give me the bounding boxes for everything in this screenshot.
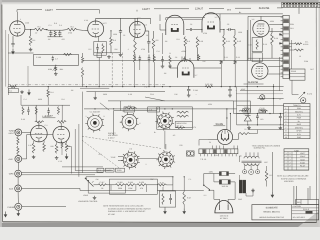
resistor R25	[294, 49, 303, 51]
svg-text:R-2: R-2	[32, 39, 35, 42]
svg-text:SCALE: SCALE	[303, 208, 310, 211]
svg-text:.01: .01	[146, 34, 149, 37]
tube V6 6L6G output 1	[253, 20, 269, 36]
svg-text:C-141: C-141	[193, 89, 198, 92]
phone jack circle	[301, 98, 306, 103]
control network box	[34, 55, 79, 66]
resistor R51 in box	[162, 194, 164, 205]
svg-text:1: 1	[20, 18, 21, 21]
transformer secondary winding	[244, 163, 259, 165]
svg-text:R-31: R-31	[42, 115, 46, 118]
svg-text:S-2: S-2	[204, 194, 207, 197]
selector switch	[85, 178, 94, 187]
tube V8 6L6G output 2	[252, 63, 268, 79]
potentiometer hum balance	[53, 65, 57, 72]
wire strip to box a	[288, 70, 291, 72]
svg-text:A NATION: A NATION	[293, 205, 302, 208]
resistor R2 divider	[29, 30, 32, 46]
wire drop from parts table	[298, 8, 300, 14]
capacitor C2	[58, 30, 61, 37]
capacitor box C10	[252, 53, 262, 62]
transformer core	[242, 161, 262, 163]
svg-text:NOTE: ALL CAPACITOR VALUES ARE: NOTE: ALL CAPACITOR VALUES ARE	[277, 175, 309, 178]
junction y98.5	[262, 98, 274, 99]
wire bundle bend	[66, 146, 72, 148]
fuse F1	[219, 172, 228, 176]
svg-text:.005: .005	[61, 38, 65, 41]
arrowheads into strip	[280, 34, 283, 45]
label J1	[9, 130, 16, 136]
svg-text:9: 9	[285, 133, 286, 136]
svg-text:R-1: R-1	[245, 128, 248, 131]
resistor R46 chain	[98, 184, 107, 186]
svg-text:6: 6	[285, 123, 286, 126]
border frame right	[315, 6, 317, 223]
small plate box	[175, 122, 192, 128]
wire V6 to strip b	[269, 31, 283, 33]
pilot lamp P3	[256, 170, 260, 174]
chassis box partial	[114, 111, 157, 136]
svg-text:R-10: R-10	[199, 40, 203, 43]
wire transformer left	[239, 156, 241, 180]
svg-text:1: 1	[285, 107, 286, 110]
table TUBE (tube complement)	[284, 149, 309, 170]
label AC plug	[220, 214, 229, 219]
resistor R43 in S4 box	[177, 111, 189, 113]
wire transformer bottom	[246, 189, 253, 196]
pilot lamp	[260, 95, 265, 100]
socket S3 (bottom view)	[121, 151, 140, 170]
section bracket second	[137, 8, 283, 12]
wire plug risers	[209, 182, 235, 205]
resistor box R151	[243, 109, 251, 112]
ground transformer	[251, 189, 255, 192]
resistor R12	[234, 30, 237, 61]
wire into box	[8, 52, 34, 54]
pot wiper arrow	[299, 92, 306, 99]
wire x272.4 vertical	[271, 152, 273, 192]
capacitor C15	[161, 56, 164, 65]
wires V11 anode drops	[227, 109, 231, 131]
wire y105 right	[237, 104, 284, 106]
capacitor C3 cathode	[11, 36, 14, 47]
wire J1 to V9 grid	[22, 131, 31, 133]
wire V9 plate up	[38, 123, 40, 125]
svg-text:16: 16	[299, 55, 301, 58]
tube V1 12AT7 section A	[10, 21, 25, 36]
svg-text:1: 1	[86, 115, 87, 118]
wire V2 cathode to box	[98, 37, 100, 42]
resistor R3 (network)	[54, 31, 56, 37]
svg-text:6L6G: 6L6G	[300, 158, 305, 161]
tube V10 12AT7 preamp B	[53, 126, 70, 143]
svg-text:LOUD: LOUD	[83, 194, 89, 197]
tube V3 12AT7	[129, 22, 145, 38]
AC plug	[215, 200, 233, 213]
bias rail low	[248, 129, 284, 131]
svg-text:C-2: C-2	[45, 124, 48, 127]
wire node A	[45, 29, 49, 31]
svg-text:LOUDNESS CONTROL: LOUDNESS CONTROL	[78, 200, 98, 203]
transformer core lamination bar 2	[243, 180, 246, 193]
wire bus drop right	[150, 18, 152, 24]
ground V10 cathode	[55, 156, 59, 159]
wires strip to taps	[289, 40, 294, 69]
diagonal wire from tone	[145, 97, 165, 101]
wire S5 top	[165, 144, 167, 149]
svg-text:SHOWN IN POS. 1. VOLTAGES AT S: SHOWN IN POS. 1. VOLTAGES AT SOCKET.	[108, 210, 146, 213]
terminal strip (right vertical)	[281, 15, 290, 78]
speaker terminal box	[290, 69, 305, 80]
svg-text:C-1: C-1	[98, 169, 101, 172]
svg-text:R-120: R-120	[139, 181, 144, 184]
svg-text:TONE: TONE	[111, 156, 117, 159]
wire RC network bottom rail	[48, 36, 63, 38]
svg-text:V-2: V-2	[128, 105, 131, 108]
electrolytic C17	[187, 87, 191, 97]
svg-text:INPUT: INPUT	[9, 132, 16, 135]
resistor R39	[35, 107, 37, 115]
svg-text:R-4: R-4	[50, 91, 53, 94]
svg-text:R-172: R-172	[307, 93, 312, 96]
wire y98.5	[257, 98, 283, 100]
ground x29	[28, 90, 31, 95]
wire taps down	[111, 185, 147, 193]
wire V4 grid left	[160, 15, 166, 31]
svg-text:12AT7: 12AT7	[142, 8, 150, 11]
wire network to R4	[63, 29, 67, 32]
svg-text:C-8: C-8	[157, 50, 160, 53]
wire drop x172.9	[172, 177, 174, 185]
svg-text:.05: .05	[101, 187, 104, 190]
resistor R27	[238, 133, 250, 135]
svg-text:12AT7: 12AT7	[45, 9, 53, 12]
label 12AT7 preamp	[42, 115, 55, 118]
resistor R10	[196, 37, 199, 61]
rectifier diode D1	[244, 116, 251, 121]
socket S4 (bottom view)	[155, 112, 174, 131]
bus y58.2	[248, 57, 283, 59]
svg-text:GND: GND	[238, 198, 243, 201]
capacitor C22	[47, 108, 50, 116]
resistor R48 chain	[125, 184, 136, 186]
resistor R11	[223, 30, 226, 61]
svg-text:SPKR: SPKR	[291, 70, 297, 73]
svg-text:9: 9	[104, 115, 105, 118]
svg-text:C-100: C-100	[36, 56, 41, 59]
svg-text:.02: .02	[190, 23, 193, 26]
capacitor C14	[148, 55, 151, 87]
capacitor C23 in box	[169, 194, 172, 204]
svg-text:RED/YEL: RED/YEL	[295, 110, 303, 113]
resistor R47 chain	[115, 184, 126, 186]
tube V11 5U4G	[217, 129, 232, 144]
svg-text:SUNBEATE: SUNBEATE	[266, 207, 279, 210]
wire y170.5	[75, 170, 113, 172]
svg-text:5U4G: 5U4G	[216, 122, 223, 126]
jack J4 input	[15, 185, 22, 192]
fuse holder box	[186, 151, 194, 156]
svg-text:R-11: R-11	[226, 40, 230, 43]
resistor R9	[184, 37, 187, 61]
resistor R7 long	[134, 18, 137, 60]
ground selector	[93, 196, 97, 199]
capacitor C21	[27, 107, 30, 115]
svg-text:DURING POL: DURING POL	[254, 147, 265, 150]
socket S2 (bottom view)	[120, 112, 139, 131]
svg-text:B+: B+	[298, 120, 300, 123]
capacitor C13	[139, 56, 142, 71]
svg-text:R-8: R-8	[62, 98, 65, 101]
wire ground stub	[94, 92, 96, 97]
svg-text:.02: .02	[35, 32, 38, 35]
svg-text:MODEL 0810-01: MODEL 0810-01	[264, 210, 281, 213]
wire J3 b	[22, 174, 96, 176]
ground feedback box	[164, 208, 167, 213]
junction R6 top	[110, 30, 111, 31]
ground stage2 a	[107, 55, 111, 58]
wire fuse row top	[204, 173, 235, 175]
svg-text:V-3: V-3	[144, 24, 147, 27]
parts list table (top right)	[282, 2, 320, 7]
svg-text:12AT7: 12AT7	[45, 115, 53, 118]
svg-text:C-9: C-9	[149, 109, 152, 112]
wire V1 plate to bracket	[16, 12, 18, 21]
feedback box V2 cathode	[94, 42, 107, 56]
ground arrow x272	[271, 192, 274, 197]
junction R52	[184, 176, 185, 177]
wire y90.7	[240, 90, 283, 92]
svg-text:WIRING DIAGRAM FOR THE: WIRING DIAGRAM FOR THE	[259, 216, 284, 219]
resistor R20 above V7	[198, 55, 200, 61]
wire J3 a	[22, 172, 104, 174]
svg-text:.02: .02	[175, 56, 178, 59]
svg-text:R-4: R-4	[70, 25, 73, 28]
svg-text:R-13: R-13	[263, 43, 267, 46]
svg-text:AUX: AUX	[9, 158, 14, 161]
svg-text:2: 2	[146, 163, 147, 166]
junction R2 top	[30, 29, 31, 30]
svg-text:V-6: V-6	[252, 18, 255, 21]
wire y190.4	[94, 189, 136, 191]
title block	[252, 200, 319, 220]
svg-text:3: 3	[123, 110, 124, 113]
svg-text:BAL: BAL	[60, 68, 64, 71]
svg-text:1: 1	[285, 152, 286, 155]
wire V8 to strip a	[268, 66, 283, 68]
wire V7 right	[194, 67, 221, 69]
wire S4 bottom	[164, 131, 166, 149]
resistor R4 coupling	[67, 28, 77, 31]
svg-text:4: 4	[285, 117, 286, 120]
terminal strip (bottom horizontal)	[199, 149, 238, 156]
loudness enclosure	[110, 179, 158, 194]
border frame bottom	[3, 221, 317, 224]
svg-text:C-9: C-9	[249, 44, 252, 47]
svg-text:V-10: V-10	[58, 160, 62, 163]
AC plug prongs	[220, 205, 229, 210]
svg-text:R-30: R-30	[21, 118, 25, 121]
resistor R30 above V10	[57, 121, 66, 124]
component box mid 1	[124, 107, 135, 112]
svg-text:2: 2	[289, 164, 290, 167]
wire switch feed	[157, 174, 204, 191]
section bracket 12AT7 left	[17, 10, 100, 14]
resistor R5 in box	[102, 44, 104, 54]
svg-text:A 250: A 250	[244, 113, 249, 116]
shield line vertical 2	[122, 53, 124, 87]
svg-text:SPKR: SPKR	[296, 130, 302, 133]
resistor R1 plate load	[34, 28, 45, 31]
wire fuse row bottom	[214, 181, 235, 183]
resistor R21	[220, 61, 223, 87]
resistor R22	[234, 61, 237, 87]
svg-text:R-9: R-9	[187, 40, 190, 43]
shield line horizontal	[8, 84, 165, 86]
wire x279.3 vertical	[278, 57, 280, 91]
svg-text:5U4G: 5U4G	[300, 161, 305, 164]
wire y193.1	[88, 192, 125, 194]
svg-text:V-3: V-3	[138, 17, 141, 20]
electrolytic C18	[228, 87, 232, 97]
svg-text:6: 6	[140, 122, 141, 125]
wire stage2 bottom	[94, 52, 121, 54]
svg-text:6L6G/5B: 6L6G/5B	[248, 81, 259, 84]
ground C15	[161, 65, 165, 68]
scan edge top fade	[0, 2, 320, 4]
T-150 transformer box	[234, 101, 251, 113]
wire x62 up	[61, 105, 63, 122]
wire box bottom stubs	[165, 205, 184, 209]
border frame left	[1, 5, 4, 222]
svg-text:10: 10	[285, 136, 287, 139]
capacitor C7 coupling	[186, 28, 202, 31]
wire selector stub	[85, 177, 87, 179]
svg-text:7: 7	[285, 126, 286, 129]
wire V5 plate to bus	[219, 14, 221, 20]
label 6L6G/5B lower	[244, 81, 264, 84]
svg-text:C-1: C-1	[49, 24, 52, 27]
tube V5 12AU7 section B	[202, 13, 220, 33]
wire V8 to strip b	[268, 73, 283, 75]
resistor R52	[183, 177, 186, 205]
bus y60.5	[83, 60, 283, 62]
dashed leader line 1	[82, 136, 161, 148]
wire x273.5 vertical	[273, 84, 275, 114]
switch S2 power	[203, 185, 210, 191]
svg-text:.1: .1	[127, 48, 129, 51]
resistor R32 between jacks	[17, 146, 19, 154]
labels below chain	[101, 187, 144, 190]
diagonal wire to socket	[100, 103, 109, 110]
resistor R34	[43, 141, 46, 152]
wire x162 drop	[162, 33, 164, 54]
component box mid 2	[148, 107, 160, 112]
wire y108.9 socket rail	[84, 108, 237, 110]
ground R19	[168, 64, 172, 67]
wire gray y93.8	[236, 93, 283, 95]
note text right margin	[277, 175, 309, 184]
wire jack bus lower	[17, 177, 19, 203]
svg-text:P.U.: P.U.	[144, 85, 148, 88]
svg-text:MEAS 120V: MEAS 120V	[177, 122, 188, 125]
wire y166.9	[62, 166, 103, 168]
svg-text:NOTE: RESISTORS ARE 1/2 W, 10%: NOTE: RESISTORS ARE 1/2 W, 10% & VALUES	[103, 205, 144, 208]
wire V11 right	[233, 134, 239, 140]
svg-text:TUNER: TUNER	[9, 130, 16, 133]
shield line vertical 1	[111, 53, 113, 87]
ground stage2 b	[119, 53, 123, 56]
svg-text:COM: COM	[304, 60, 309, 63]
svg-text:V-5: V-5	[215, 16, 218, 19]
pilot lamp P2	[249, 170, 254, 175]
svg-text:1: 1	[285, 161, 286, 164]
svg-text:GRN/YEL: GRN/YEL	[295, 126, 303, 129]
resistor R6	[110, 31, 113, 53]
wire x120 drop	[119, 101, 121, 111]
svg-text:AT LINE: AT LINE	[108, 213, 116, 216]
svg-text:B+: B+	[154, 131, 156, 134]
resistor R8	[152, 31, 155, 61]
svg-text:6L6G/5B: 6L6G/5B	[259, 7, 270, 10]
wire box down	[292, 80, 299, 94]
svg-text:HUM: HUM	[48, 68, 53, 71]
svg-text:V-3: V-3	[129, 148, 132, 151]
svg-text:R-26: R-26	[160, 181, 164, 184]
tape head box	[8, 89, 18, 93]
svg-text:SEL: SEL	[260, 118, 263, 121]
svg-text:BASS: BASS	[107, 169, 113, 172]
wires to title block	[294, 186, 310, 205]
wire box top	[163, 185, 173, 191]
socket S5 (bottom view)	[156, 150, 175, 169]
capacitor C19	[256, 114, 259, 121]
svg-text:+: +	[235, 89, 236, 92]
wire x248 drop	[247, 16, 249, 60]
wire x247 long vertical	[246, 30, 248, 114]
capacitor C12 small box	[97, 53, 102, 87]
resistor R44 in S4 box	[177, 115, 189, 117]
wire jack bus	[17, 136, 19, 170]
control box row 3	[116, 168, 125, 172]
svg-text:PILOT: PILOT	[300, 164, 306, 167]
wire y91.6	[86, 91, 165, 93]
svg-text:R-14: R-14	[274, 37, 278, 40]
wire to V2 grid	[77, 30, 88, 31]
bus y16.4	[248, 15, 283, 17]
jack J3 input	[15, 170, 22, 177]
wire selector leg	[87, 181, 89, 193]
svg-text:+: +	[195, 93, 196, 96]
svg-text:R-22: R-22	[236, 56, 240, 59]
wire J4 long	[22, 188, 94, 190]
svg-text:R-6: R-6	[113, 39, 116, 42]
wire V7 left	[170, 64, 178, 68]
resistor R38	[22, 107, 24, 115]
wire y105.2 rail	[21, 104, 70, 106]
svg-text:TREB: TREB	[117, 169, 123, 172]
svg-text:R-118: R-118	[118, 181, 123, 184]
wire bias left vertical	[236, 87, 238, 125]
svg-text:2: 2	[289, 158, 290, 161]
resistor R31 between jacks	[17, 137, 19, 145]
wire V2 plate up	[95, 18, 97, 21]
dashed leader line 2	[82, 140, 120, 169]
tube V4 12AU7 section A	[166, 15, 184, 35]
resistor R14	[271, 28, 274, 58]
svg-text:C-2: C-2	[59, 24, 62, 27]
svg-text:R-21: R-21	[224, 56, 228, 59]
